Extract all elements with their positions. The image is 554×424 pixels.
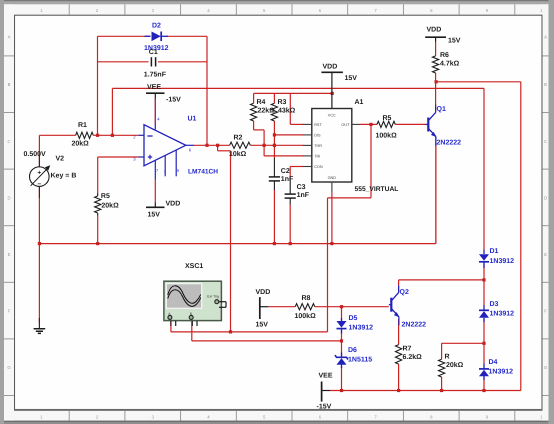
svg-text:100kΩ: 100kΩ bbox=[295, 312, 317, 320]
svg-text:TRI: TRI bbox=[314, 155, 320, 159]
svg-text:VDD: VDD bbox=[427, 27, 442, 34]
wire 555 OUT to R5 bbox=[360, 123, 377, 125]
svg-text:20kΩ: 20kΩ bbox=[101, 202, 119, 210]
node output jog junction bbox=[216, 144, 219, 147]
svg-text:D: D bbox=[544, 195, 547, 200]
node feedback-output junction bbox=[205, 144, 208, 147]
svg-text:C: C bbox=[544, 139, 547, 144]
bottom ruler band bbox=[4, 411, 550, 421]
ground symbol bbox=[38, 318, 40, 329]
svg-text:F: F bbox=[8, 309, 11, 314]
svg-text:6.2kΩ: 6.2kΩ bbox=[403, 353, 423, 361]
svg-text:RST: RST bbox=[314, 123, 322, 127]
svg-text:1N3912: 1N3912 bbox=[490, 258, 515, 265]
node R top junction bbox=[482, 342, 485, 345]
diode D2 bbox=[145, 35, 151, 37]
wire D2 branch top bbox=[98, 35, 151, 37]
svg-text:Q2: Q2 bbox=[400, 289, 409, 296]
wire RST drop bbox=[289, 93, 291, 124]
svg-text:VEE: VEE bbox=[319, 373, 333, 380]
oscilloscope XSC1 bbox=[164, 281, 222, 320]
wire feedback loop left vertical bbox=[97, 36, 99, 135]
left ruler band bbox=[4, 4, 14, 420]
svg-text:−: − bbox=[37, 181, 41, 188]
node VCC stem junction bbox=[331, 92, 334, 95]
svg-text:VDD: VDD bbox=[256, 289, 271, 296]
wire R3 bottom to DIS/THR/C2 bbox=[273, 121, 275, 158]
svg-text:A: A bbox=[8, 35, 11, 40]
wire VCC distribution bbox=[254, 92, 333, 94]
wire Q1 emitter down bbox=[435, 137, 437, 244]
VDD supply R8 bbox=[259, 297, 261, 319]
wire sense line from inverting node to diode string bbox=[111, 88, 113, 135]
wire R7 bottom bbox=[398, 364, 400, 390]
wire scope A line bbox=[170, 321, 172, 332]
svg-text:VCC: VCC bbox=[328, 114, 336, 118]
node Q2 collector junction bbox=[482, 278, 485, 281]
op-amp U1 power pins bbox=[154, 99, 156, 130]
wire Q2 collector up to diode string bbox=[398, 280, 400, 292]
wire diode string D3-D4 bbox=[483, 319, 485, 343]
svg-text:10kΩ: 10kΩ bbox=[229, 150, 247, 158]
wire VDD to R8 bbox=[268, 306, 295, 308]
svg-text:C1: C1 bbox=[149, 49, 158, 56]
svg-text:D4: D4 bbox=[489, 359, 498, 366]
wire collector bus right side bbox=[436, 81, 521, 83]
wire diode string D1-D3 bbox=[483, 264, 485, 280]
node DIS junction bbox=[273, 133, 276, 136]
wire D5-D6 mid bbox=[341, 331, 343, 357]
svg-text:LM741CH: LM741CH bbox=[188, 169, 218, 176]
svg-text:R5: R5 bbox=[383, 115, 392, 122]
wire C1 branch bbox=[98, 61, 149, 63]
svg-text:F: F bbox=[544, 309, 547, 314]
resistor R 20k bbox=[439, 359, 445, 377]
svg-text:0.500V: 0.500V bbox=[24, 151, 47, 158]
svg-text:1N3912: 1N3912 bbox=[489, 368, 514, 375]
svg-text:D5: D5 bbox=[349, 315, 358, 322]
svg-text:1N5115: 1N5115 bbox=[348, 357, 372, 364]
node OUT junction bbox=[369, 123, 372, 126]
op-amp U1 bbox=[144, 125, 186, 166]
svg-text:XSC1: XSC1 bbox=[185, 263, 203, 270]
svg-text:A: A bbox=[544, 35, 547, 40]
node D5 top junction bbox=[340, 305, 343, 308]
wire OUT jog down to scope A line bbox=[370, 124, 372, 197]
svg-text:R7: R7 bbox=[403, 346, 412, 353]
wire D5 upper lead bbox=[341, 307, 343, 321]
wire scope B line bbox=[191, 321, 193, 341]
svg-text:R2: R2 bbox=[234, 134, 243, 141]
resistor R5a 20k bbox=[97, 193, 99, 196]
svg-text:-15V: -15V bbox=[166, 97, 181, 104]
svg-text:4.7kΩ: 4.7kΩ bbox=[440, 60, 460, 68]
svg-text:R6: R6 bbox=[440, 52, 449, 59]
svg-text:15V: 15V bbox=[345, 75, 358, 82]
wire R top tee bbox=[442, 342, 484, 344]
svg-text:20kΩ: 20kΩ bbox=[446, 361, 464, 369]
svg-text:1nF: 1nF bbox=[281, 176, 294, 183]
svg-text:D2: D2 bbox=[152, 23, 161, 30]
svg-text:1.75nF: 1.75nF bbox=[144, 72, 167, 79]
capacitor C1 bbox=[150, 57, 152, 66]
node R6 bottom junction bbox=[435, 80, 438, 83]
svg-text:E: E bbox=[544, 252, 547, 257]
svg-text:THR: THR bbox=[314, 144, 322, 148]
svg-text:R8: R8 bbox=[302, 295, 311, 302]
VEE supply bottom bbox=[321, 382, 323, 402]
svg-text:VDD: VDD bbox=[166, 201, 181, 208]
svg-text:2N2222: 2N2222 bbox=[402, 322, 427, 329]
resistor R6 bbox=[433, 56, 439, 73]
wire R8 to Q2 base bbox=[315, 306, 389, 308]
timer A1 555 bbox=[312, 109, 352, 183]
VEE supply op-amp bbox=[146, 92, 165, 94]
svg-text:1nF: 1nF bbox=[297, 192, 310, 199]
svg-text:1N3912: 1N3912 bbox=[490, 311, 515, 318]
diode D3 bbox=[483, 305, 485, 310]
transistor Q1 bbox=[427, 118, 429, 132]
wire R1 to op-amp inverting input bbox=[93, 134, 138, 136]
svg-text:43kΩ: 43kΩ bbox=[278, 107, 296, 115]
wire op-amp noninverting input bbox=[98, 156, 139, 158]
diode D5 bbox=[341, 318, 343, 321]
svg-text:15V: 15V bbox=[448, 38, 461, 45]
wire op-amp output to 555 THR bbox=[194, 144, 230, 146]
svg-text:R4: R4 bbox=[257, 99, 266, 106]
svg-text:2N2222: 2N2222 bbox=[437, 139, 462, 146]
svg-text:Q1: Q1 bbox=[437, 106, 446, 113]
resistor R8 bbox=[295, 304, 315, 310]
svg-text:1N3912: 1N3912 bbox=[349, 325, 374, 332]
resistor R5b 100k bbox=[377, 121, 395, 127]
wire diode string D4 bottom bbox=[483, 377, 485, 391]
resistor R4 bbox=[251, 103, 257, 121]
wire R bottom bbox=[441, 377, 443, 391]
VEE rail bbox=[330, 390, 521, 392]
svg-text:-15V: -15V bbox=[317, 404, 332, 411]
node ground rail junctions bbox=[38, 242, 41, 245]
wire C2 lower lead to rail bbox=[273, 190, 275, 244]
svg-text:C: C bbox=[7, 139, 10, 144]
svg-text:R5: R5 bbox=[101, 193, 110, 200]
svg-text:15V: 15V bbox=[148, 212, 161, 219]
svg-text:GND: GND bbox=[328, 176, 337, 180]
diode D4 bbox=[483, 364, 485, 369]
svg-text:E: E bbox=[8, 252, 11, 257]
capacitor C2 bbox=[269, 176, 280, 178]
resistor R1 bbox=[76, 132, 94, 138]
svg-text:CON: CON bbox=[314, 165, 323, 169]
wire R5 bottom to ground rail bbox=[97, 216, 99, 244]
svg-text:VEE: VEE bbox=[147, 84, 161, 91]
wire V2 top lead to R1 bbox=[38, 135, 40, 167]
source V2 bbox=[38, 156, 40, 168]
resistor R3 bbox=[271, 103, 277, 121]
svg-text:VDD: VDD bbox=[323, 64, 338, 71]
svg-text:R1: R1 bbox=[78, 122, 87, 129]
wire CON to C3 bbox=[290, 166, 303, 168]
right ruler band bbox=[543, 4, 549, 420]
wire R6 top lead bbox=[435, 42, 437, 56]
svg-text:OUT: OUT bbox=[341, 123, 350, 127]
svg-text:B: B bbox=[8, 82, 11, 87]
VDD supply 555 bbox=[321, 71, 343, 73]
wire C3 lower lead to rail bbox=[289, 205, 291, 244]
top ruler band bbox=[4, 4, 550, 14]
wire 555 GND to rail bbox=[331, 192, 333, 243]
svg-text:V2: V2 bbox=[56, 155, 65, 162]
svg-text:A1: A1 bbox=[355, 99, 364, 106]
wire R6 bottom to Q1 collector bbox=[435, 73, 437, 113]
VDD supply op-amp bbox=[146, 206, 165, 208]
wire TRI bbox=[264, 155, 303, 157]
wire output jog down to scope line bbox=[217, 145, 219, 151]
transistor Q2 bbox=[390, 298, 392, 312]
wire R3 top bbox=[273, 93, 275, 103]
svg-text:Ext Trig: Ext Trig bbox=[207, 294, 219, 298]
svg-text:D: D bbox=[7, 195, 10, 200]
node scope A tee bbox=[229, 330, 232, 333]
svg-text:100kΩ: 100kΩ bbox=[376, 132, 398, 140]
svg-text:15V: 15V bbox=[256, 321, 269, 328]
wire V2 bottom to ground bbox=[38, 186, 40, 323]
svg-text:20kΩ: 20kΩ bbox=[72, 140, 90, 148]
wire feedback loop right vertical bbox=[206, 36, 208, 145]
svg-text:D1: D1 bbox=[490, 248, 499, 255]
capacitor C3 bbox=[285, 193, 296, 195]
svg-text:DIS: DIS bbox=[314, 134, 321, 138]
svg-text:R: R bbox=[445, 354, 450, 361]
svg-text:D3: D3 bbox=[490, 301, 499, 308]
svg-text:C3: C3 bbox=[297, 184, 306, 191]
node R2 junction bbox=[263, 144, 266, 147]
svg-text:R3: R3 bbox=[278, 99, 287, 106]
wire R4 bottom jog bbox=[253, 121, 255, 130]
diode D6 zener bbox=[341, 353, 343, 358]
wire R4 top bbox=[253, 93, 255, 103]
svg-text:C2: C2 bbox=[281, 168, 290, 175]
wire D6 bottom to VEE rail bbox=[341, 367, 343, 391]
diode D1 bbox=[483, 250, 485, 255]
wire DIS bbox=[274, 134, 303, 136]
svg-text:Key = B: Key = B bbox=[51, 172, 77, 179]
VDD supply Q1 bbox=[425, 36, 446, 38]
node VEE rail junctions bbox=[340, 389, 343, 392]
svg-text:U1: U1 bbox=[188, 116, 197, 123]
resistor R2 bbox=[230, 142, 251, 148]
wire Q2 emitter to R7 bbox=[398, 319, 400, 345]
svg-text:B: B bbox=[544, 82, 547, 87]
svg-text:555_VIRTUAL: 555_VIRTUAL bbox=[355, 186, 399, 193]
resistor R7 bbox=[396, 345, 402, 365]
node scope B tee bbox=[340, 339, 343, 342]
ground rail bbox=[39, 243, 436, 245]
svg-text:D6: D6 bbox=[348, 347, 357, 354]
